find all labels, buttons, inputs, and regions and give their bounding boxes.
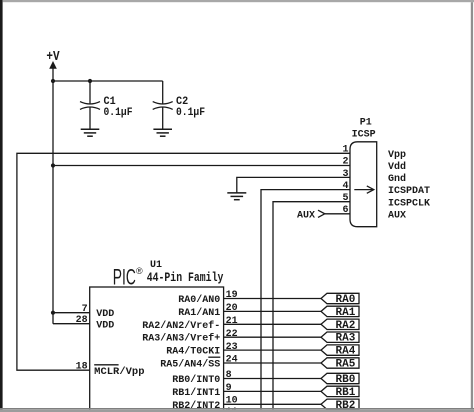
- svg-text:RA0: RA0: [336, 294, 356, 306]
- arrow inside P1 at pin4: [354, 186, 374, 193]
- wire VDD pin7: [53, 312, 90, 314]
- wire RA3: [224, 336, 321, 338]
- wire RA1: [224, 310, 321, 312]
- svg-text:1: 1: [342, 145, 348, 156]
- svg-text:RA1: RA1: [336, 307, 356, 319]
- svg-text:RA4/T0CKI: RA4/T0CKI: [166, 346, 220, 358]
- connector P1 ICSP box: [350, 117, 377, 226]
- svg-text:RB1: RB1: [336, 387, 356, 399]
- net flag RA1: [321, 306, 359, 319]
- ground under C2: [153, 129, 172, 136]
- ground under C1: [81, 129, 100, 136]
- svg-text:MCLR/Vpp: MCLR/Vpp: [94, 366, 144, 378]
- pin numbers P1 1-6: [342, 145, 348, 217]
- P1 pin name labels: [388, 150, 430, 222]
- svg-text:9: 9: [226, 383, 232, 394]
- svg-text:RA5/AN4/SS: RA5/AN4/SS: [160, 359, 220, 371]
- capacitor C2: [153, 81, 205, 129]
- svg-text:AUX: AUX: [388, 210, 406, 221]
- junction at C1 branch: [88, 79, 92, 83]
- svg-text:0.1µF: 0.1µF: [104, 107, 133, 119]
- wire Vdd: ICSP pin2 to +V rail: [53, 165, 350, 167]
- junction at +V rail and cap rail: [51, 79, 55, 83]
- svg-text:22: 22: [226, 329, 238, 340]
- svg-text:RA2/AN2/Vref-: RA2/AN2/Vref-: [142, 320, 220, 332]
- svg-text:ICSPCLK: ICSPCLK: [388, 198, 430, 209]
- wire RB0: [224, 378, 321, 380]
- wire Gnd: ICSP pin3 to ground: [237, 177, 350, 193]
- U1 left pin numbers: [76, 304, 88, 373]
- svg-text:28: 28: [76, 315, 88, 326]
- svg-text:3: 3: [342, 169, 348, 180]
- wire ICSPDAT: ICSP pin4 down: [261, 190, 350, 412]
- svg-text:VDD: VDD: [96, 320, 114, 331]
- net label AUX: [297, 210, 325, 221]
- overline SS on RA5/AN4/SS: [208, 356, 220, 358]
- svg-text:RA5: RA5: [336, 359, 356, 371]
- svg-text:18: 18: [76, 362, 88, 373]
- capacitor C1: [80, 81, 133, 129]
- svg-text:21: 21: [226, 316, 238, 327]
- net flag RA4: [321, 345, 359, 358]
- svg-text:19: 19: [226, 290, 238, 301]
- wire RA5: [224, 362, 321, 364]
- svg-text:24: 24: [226, 355, 238, 366]
- wire VDD pin28: [53, 323, 90, 325]
- svg-text:AUX: AUX: [297, 210, 315, 221]
- window frame right gray bar: [471, 2, 473, 409]
- svg-text:RB1/INT1: RB1/INT1: [172, 387, 220, 399]
- svg-text:RA2: RA2: [336, 320, 356, 332]
- U1 right pin numbers: [226, 290, 238, 412]
- net flag RA2: [321, 319, 359, 332]
- net flag RA5: [321, 358, 359, 371]
- svg-text:RA0/AN0: RA0/AN0: [178, 294, 220, 306]
- net flag RA0: [321, 293, 359, 306]
- window frame left black bar: [0, 0, 3, 412]
- IC U1 box: [90, 260, 224, 412]
- svg-text:RB0/INT0: RB0/INT0: [172, 374, 220, 386]
- wire top capacitor rail: [53, 80, 163, 82]
- wire +V rail vertical: [52, 81, 54, 324]
- svg-text:®: ®: [136, 266, 143, 276]
- wire RA0: [224, 298, 321, 300]
- power symbol +V: [46, 50, 60, 81]
- svg-text:ICSPDAT: ICSPDAT: [388, 186, 430, 197]
- svg-text:2: 2: [342, 157, 348, 168]
- svg-text:44-Pin Family: 44-Pin Family: [147, 270, 224, 285]
- junction VDD pin7 at rail: [51, 311, 55, 315]
- svg-text:4: 4: [342, 181, 348, 192]
- svg-text:Vdd: Vdd: [388, 161, 406, 173]
- svg-text:6: 6: [342, 205, 348, 216]
- net flag RB0: [321, 373, 359, 386]
- svg-text:8: 8: [226, 370, 232, 381]
- window frame bottom gray bar: [0, 408, 474, 409]
- ground at ICSP pin3: [227, 193, 246, 200]
- svg-text:20: 20: [226, 303, 238, 314]
- U1 right pin labels: [142, 294, 220, 412]
- svg-text:7: 7: [82, 304, 88, 315]
- overline MCLR: [94, 364, 118, 366]
- U1 left pin labels: [94, 309, 144, 378]
- svg-text:PIC: PIC: [113, 265, 136, 290]
- wire Vpp: ICSP pin1 to MCLR pin18: [17, 153, 350, 370]
- wire AUX: ICSP pin6: [325, 213, 350, 215]
- svg-text:P1: P1: [360, 117, 372, 128]
- window frame top gray strip: [3, 0, 474, 2]
- svg-text:0.1µF: 0.1µF: [176, 107, 205, 119]
- svg-text:U1: U1: [150, 260, 162, 271]
- net flag RB1: [321, 386, 359, 399]
- svg-text:RB0: RB0: [336, 374, 356, 386]
- wire RA4: [224, 349, 321, 351]
- svg-text:RA1/AN1: RA1/AN1: [178, 307, 220, 319]
- wire ICSPCLK: ICSP pin5 down: [273, 202, 350, 412]
- wire RA2: [224, 323, 321, 325]
- wire RB1: [224, 390, 321, 392]
- svg-text:RA4: RA4: [336, 346, 356, 358]
- svg-text:ICSP: ICSP: [352, 130, 376, 141]
- svg-text:Gnd: Gnd: [388, 173, 406, 185]
- svg-text:Vpp: Vpp: [388, 150, 406, 161]
- wire RB2: [224, 403, 321, 405]
- svg-text:VDD: VDD: [96, 309, 114, 320]
- net flag RB2: [321, 399, 359, 412]
- svg-text:23: 23: [226, 342, 238, 353]
- net flag RA3: [321, 332, 359, 345]
- svg-text:5: 5: [342, 193, 348, 204]
- svg-text:RA3: RA3: [336, 333, 356, 345]
- junction Vdd at rail: [51, 163, 55, 167]
- svg-text:RA3/AN3/Vref+: RA3/AN3/Vref+: [142, 333, 220, 345]
